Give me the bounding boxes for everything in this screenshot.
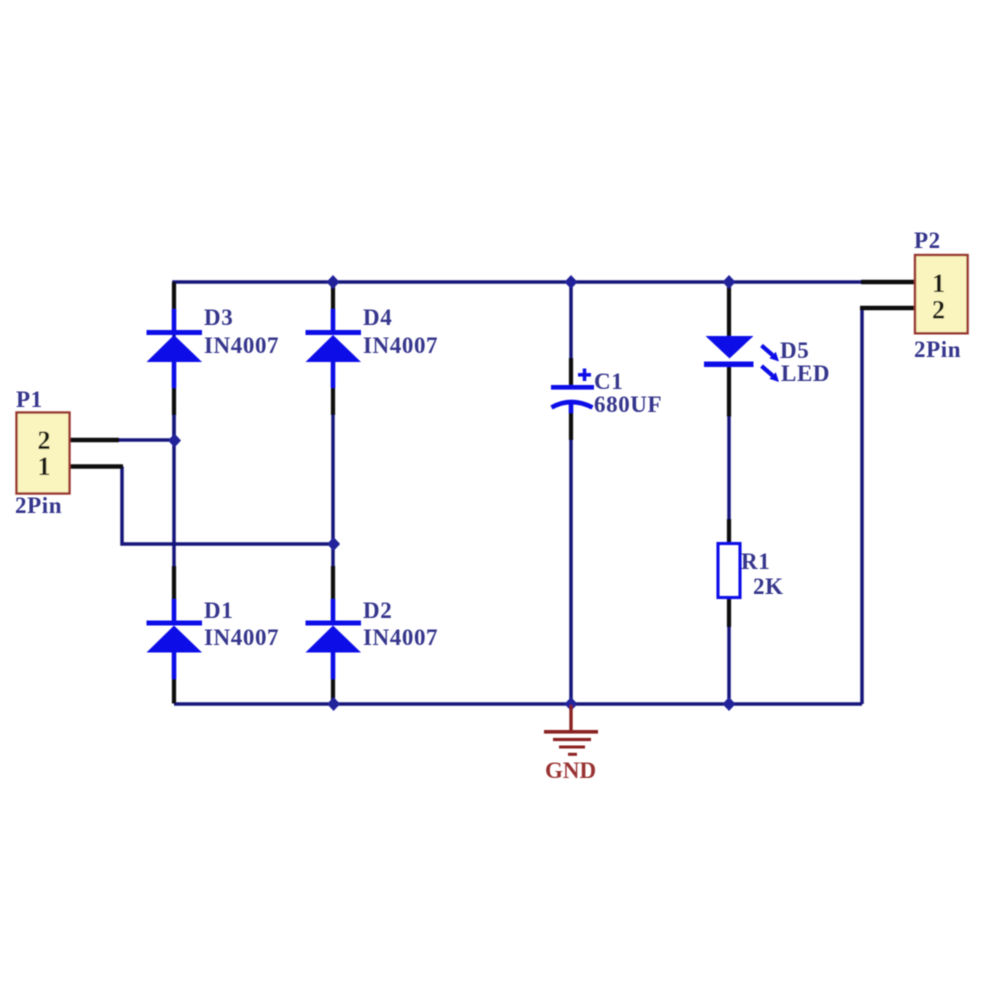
ground — [544, 705, 598, 754]
pin stub: D3 bottom — [172, 388, 176, 416]
pin stub: C1 bottom — [569, 412, 573, 440]
svg-text:GND: GND — [545, 758, 596, 783]
diode D4 — [306, 309, 362, 388]
wire: C1 top net — [569, 282, 573, 358]
pin stub: P1 pin1 — [69, 464, 123, 469]
pin stub: R1 bottom — [727, 597, 731, 627]
svg-text:D4: D4 — [363, 305, 392, 330]
svg-text:2: 2 — [38, 426, 51, 455]
pin stub: D4 bottom — [331, 388, 335, 416]
junction node on top rail at C1 — [565, 275, 578, 289]
svg-text:D3: D3 — [204, 305, 233, 330]
diode D2 — [306, 599, 362, 679]
junction node on top rail at D5 — [723, 275, 736, 289]
svg-text:D1: D1 — [204, 598, 233, 623]
svg-text:2Pin: 2Pin — [914, 337, 961, 362]
pin stub: D3 top — [172, 282, 176, 310]
pin stub: R1 top — [727, 519, 731, 544]
svg-text:2K: 2K — [753, 574, 784, 599]
wire: R1 bottom to bottom rail — [727, 627, 731, 704]
junction node D2/D4 — [327, 537, 340, 551]
pin stub: D4 top — [331, 282, 335, 310]
diode D3 — [147, 309, 203, 388]
junction node P1 pin2 — [168, 434, 181, 448]
wire: C1 bottom to bottom rail — [569, 440, 573, 704]
pin stub: D5 bottom — [727, 367, 731, 417]
pin stub: C1 top — [569, 358, 573, 385]
svg-text:680UF: 680UF — [594, 392, 662, 417]
pin stub: D1 bottom — [172, 678, 176, 704]
svg-text:IN4007: IN4007 — [204, 625, 279, 650]
pin stub: D2 bottom — [331, 678, 335, 704]
junction node on top rail at D4 — [327, 275, 340, 289]
connector P2 — [915, 255, 968, 333]
pin stub: D1 top — [172, 566, 176, 600]
svg-text:D2: D2 — [363, 598, 392, 623]
svg-text:2: 2 — [932, 296, 945, 325]
resistor R1 — [718, 544, 740, 598]
wire: top rail from node A to P2 pin1 — [174, 282, 862, 440]
pin stub: P2 pin1 — [861, 280, 915, 285]
junction node bottom rail at D2 — [327, 697, 340, 711]
wire: P1 pin1 down and right to D2/D4 node — [122, 467, 334, 545]
svg-text:P2: P2 — [914, 228, 941, 253]
svg-text:IN4007: IN4007 — [363, 625, 438, 650]
svg-text:2Pin: 2Pin — [15, 493, 62, 518]
pin stub: D5 top — [727, 282, 731, 337]
wire: P2 pin2 down right column — [860, 308, 864, 704]
wire: D4 bottom to D2 top net (x=333) — [331, 414, 335, 566]
svg-text:1: 1 — [38, 452, 51, 481]
pin stub: P2 pin2 — [860, 306, 915, 311]
svg-text:IN4007: IN4007 — [204, 333, 279, 358]
svg-text:P1: P1 — [16, 387, 43, 412]
svg-text:C1: C1 — [594, 369, 623, 394]
svg-text:IN4007: IN4007 — [363, 333, 438, 358]
junction node bottom rail at GND — [565, 697, 578, 711]
wire: P1 pin2 to node A — [118, 438, 174, 442]
wire: bottom rail — [174, 702, 862, 706]
pin stub: D2 top — [331, 566, 335, 600]
svg-text:LED: LED — [781, 361, 830, 386]
capacitor C1 — [551, 369, 594, 414]
wire: left column D3-D1 net (x=174) — [172, 414, 176, 566]
LED D5 — [704, 336, 779, 382]
svg-text:D5: D5 — [780, 338, 809, 363]
wire: LED to R1 net — [727, 417, 731, 520]
svg-text:R1: R1 — [741, 549, 770, 574]
diode D1 — [147, 599, 203, 679]
svg-text:1: 1 — [932, 269, 945, 298]
connector P1 — [17, 413, 70, 494]
pin stub: P1 pin2 — [69, 438, 119, 443]
junction node bottom rail at R1 — [723, 697, 736, 711]
